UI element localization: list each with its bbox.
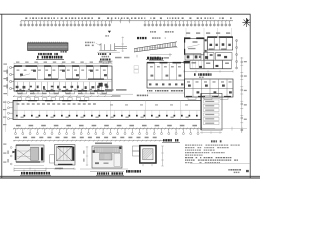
strip plan C outline [13, 101, 201, 120]
plan B title [147, 57, 149, 59]
plan A balcony bays [18, 91, 107, 94]
D3 top flight hatch band [94, 148, 120, 153]
plan B wing middle wall [185, 87, 234, 89]
plan A left dimension figures [6, 70, 7, 89]
eave detail dimension line [97, 51, 120, 53]
stair section lower ticks [136, 55, 138, 58]
D3 central hatch block [100, 154, 113, 160]
D1 stair arrow diagonals [18, 149, 31, 159]
roof stair detail D3 label [95, 143, 112, 145]
roof plan caption [163, 139, 165, 141]
plan A lower room partitions [18, 82, 108, 91]
inter-detail vertical dimension [86, 146, 88, 166]
unit plan dimension line [184, 70, 233, 72]
caption: middle detail dimension line [80, 168, 128, 170]
strip plan C left end hatch [14, 101, 17, 120]
plan A middle corridor wall [14, 78, 112, 80]
D2 shaft cross diagonals [57, 147, 73, 161]
sheet left border [1, 14, 3, 177]
top dimension figures row [25, 17, 231, 19]
gap annotation line [100, 93, 133, 95]
stair section caption [150, 57, 151, 59]
plan B top wall segments [147, 62, 181, 64]
strip plan C interior rail line [13, 109, 201, 111]
plan B wing fixtures [188, 85, 232, 94]
sheet right border [249, 14, 251, 177]
D2 right wall band [72, 147, 74, 161]
D1 stair flight hatch [31, 147, 39, 160]
D4 thick walled core [140, 146, 156, 163]
caption: water tank detail title (bold) [126, 170, 128, 173]
plan B lower-left annotation [137, 95, 139, 97]
D2 side closet [50, 155, 55, 163]
notes trailing rule [190, 162, 250, 164]
strip plan C lower label specks [21, 117, 189, 118]
north point compass symbol [242, 18, 250, 27]
schedule table lower marks [200, 132, 222, 134]
unit plan living room furnishings [193, 41, 198, 42]
details left axis marks [10, 147, 12, 165]
unit plan upper dimension specks [186, 32, 230, 33]
schedule table rows [203, 96, 219, 125]
eave detail right dimension [122, 37, 124, 53]
top dimension line [21, 20, 233, 22]
D4 inner hatched tank [143, 149, 153, 160]
plan B body outline [147, 63, 185, 88]
details row dimension line [13, 140, 166, 142]
plan A furniture and fixture blobs [20, 70, 107, 77]
plan B lower band fixtures [149, 83, 183, 85]
strip plan C sparse partitions [111, 101, 181, 120]
D1 left leader arrow [12, 151, 16, 153]
D3 lower dimension line [90, 171, 124, 173]
plan A upper dimension figures [16, 62, 111, 63]
plan B wing partitions [193, 79, 227, 97]
title block text [228, 169, 229, 171]
caption: middle stair detail title [97, 172, 98, 174]
D4 right dimension string [162, 146, 164, 166]
notes header [211, 140, 213, 142]
caption: left stair detail title [21, 172, 23, 175]
eave detail leader labels [85, 42, 87, 44]
plan B partitions [155, 63, 177, 80]
plan B middle wall [147, 79, 185, 81]
unit plan right dimension string [236, 40, 238, 69]
schedule table block [201, 93, 222, 130]
D1 lower dimension [14, 165, 44, 167]
water tank detail D4 side rooms [133, 146, 140, 151]
D4 stub lines [142, 163, 144, 166]
axis grid bubbles row [20, 21, 231, 26]
bottom axis bubbles [15, 129, 200, 135]
D1 side wall blobs [15, 149, 17, 160]
unit plan title [194, 73, 196, 76]
sheet top border [0, 13, 251, 15]
elevator shaft detail D2 outline [55, 145, 76, 165]
strip plan C left axis bubbles [7, 101, 13, 119]
plan A stair core marks [99, 83, 103, 87]
roof stair detail D3 outline [92, 146, 122, 168]
eave gutter channel profile [99, 43, 127, 50]
stair section sloped tread band [134, 42, 177, 52]
strip plan C upper label specks [17, 103, 96, 104]
D2 lower specks [55, 168, 63, 169]
details row dimension figures [15, 137, 157, 139]
D3 lower specks [95, 162, 99, 164]
bottom dimension line [13, 128, 215, 130]
plan A room label specks [17, 70, 106, 71]
eave detail caption block [98, 53, 99, 55]
plan A upper dimension line [14, 63, 112, 65]
eave detail section cut triangle [108, 31, 111, 33]
D3 side room [114, 153, 121, 166]
plan A bottom dimension figures [18, 93, 107, 94]
D1 landing lines [17, 150, 31, 152]
plan A left axis bubbles [10, 66, 15, 89]
caption: stair details dimension line [14, 168, 74, 170]
plan A bottom dimension line [13, 95, 112, 97]
unit plan axis drop stubs [186, 28, 232, 37]
plan A bottom wall [14, 90, 112, 92]
plan B wing balcony bumps [188, 97, 228, 99]
unit plan corridor [203, 38, 205, 60]
gap annotation text [105, 89, 114, 91]
stair section label [137, 37, 139, 39]
unit plan bedroom block [208, 37, 233, 50]
plan B bottom dimension text band [147, 90, 148, 92]
plan A lower fixture specks [16, 86, 109, 89]
plan A outline [14, 66, 112, 91]
unit plan lower rooms [190, 60, 204, 68]
strip plan C top boxes [18, 98, 89, 101]
plan title A text [37, 56, 39, 59]
stair plan detail D1 outline [16, 145, 44, 162]
unit plan middle band rooms [185, 54, 201, 60]
long elevation bar (hatched) [28, 43, 69, 51]
D2 shaft inner box [57, 147, 73, 161]
right vertical dimension string [241, 57, 243, 133]
bottom dimension figures row [16, 125, 197, 127]
notes text lines [185, 145, 240, 164]
plan B room specks [150, 66, 181, 67]
bottom strip sparse right marks [215, 127, 247, 131]
elevation bar caption [38, 53, 40, 55]
unit plan living room [185, 38, 205, 55]
bottom dimension ticks [13, 128, 202, 130]
stair section horizontal datum lines [150, 46, 178, 48]
top dimension tick marks [20, 20, 230, 22]
strip plan C column dots [16, 115, 198, 117]
plan A upper room partitions [38, 66, 108, 79]
plan B wing outline [185, 79, 234, 97]
sparse middle axis marks [112, 19, 130, 24]
plan A top wall segments [14, 65, 108, 67]
sheet bottom border (double rule) [0, 175, 260, 177]
stair section dimension figures [150, 31, 151, 32]
plan A left dimension line [7, 66, 9, 96]
D2 shaft hatch lines [60, 147, 67, 161]
eave detail top text [105, 35, 107, 36]
left margin axis annotation specks [3, 64, 7, 163]
